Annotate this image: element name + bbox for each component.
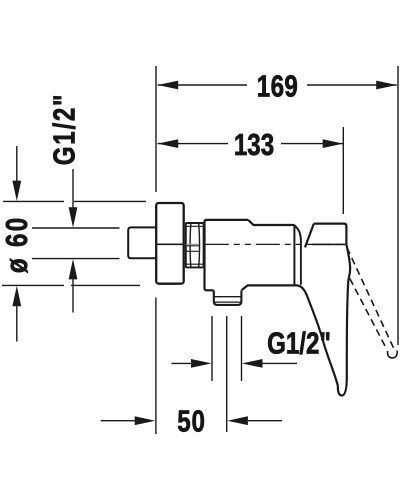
outlet thread lines (214, 297, 242, 302)
handle cap top/right (314, 224, 347, 245)
extension line, right for 169 (397, 66, 399, 345)
dimension line o60 with arrowheads (12, 146, 21, 342)
extension line, wall plane for 50 (155, 298, 157, 435)
valve body bottom right edge (242, 285, 297, 290)
extension line, right for 133 (handle cap) (342, 127, 344, 214)
lever alternate position, dashed outer edge (347, 248, 394, 349)
lever alternate position, dashed inner edge (350, 279, 386, 348)
dimension line 50 with arrowheads (101, 416, 282, 425)
extension line, outlet left edge (211, 316, 213, 381)
nut center seam (grey) (186, 243, 199, 245)
dimension line G1/2 inlet with arrowheads (69, 169, 78, 313)
svg-text:ø 60: ø 60 (0, 215, 33, 273)
lever alternate position tip hook (388, 351, 398, 358)
extension line, left (wall plane) for 169/133 (155, 66, 157, 192)
svg-text:133: 133 (234, 127, 274, 162)
body end seam 1 (293, 226, 295, 285)
extension line, outlet axis for 50 (226, 316, 228, 432)
handle cap bottom seam (312, 243, 346, 245)
extension line, outlet right edge (241, 316, 243, 381)
dimension line G1/2 outlet with arrowheads (172, 359, 298, 368)
escutcheon mid seam (156, 243, 184, 245)
dimension line 169 with arrowheads (158, 81, 397, 90)
valve body top step (248, 220, 295, 227)
witness line, escutcheon bottom edge (2, 284, 140, 286)
witness line, inlet stub bottom edge (32, 258, 120, 260)
horizontal centerline (dash-dot) (205, 243, 345, 245)
escutcheon disc (o60) (156, 203, 184, 284)
witness line, escutcheon top edge (3, 200, 146, 202)
svg-text:G1/2": G1/2" (47, 93, 82, 165)
outlet spout (G1/2 thread) (214, 290, 242, 305)
handle cap left slant (305, 224, 314, 248)
svg-text:169: 169 (257, 69, 298, 104)
valve body outline, left/top/bottom (205, 220, 249, 290)
svg-text:G1/2": G1/2" (267, 326, 331, 361)
inlet wall stub (G1/2 thread) (128, 227, 155, 258)
lever handle inner edge (297, 285, 338, 386)
body end dome curve (296, 227, 301, 240)
body end seam 2 (300, 240, 302, 285)
witness line, inlet stub top edge (32, 227, 120, 229)
lever handle outer edge and tip (338, 244, 350, 395)
svg-text:50: 50 (177, 403, 205, 438)
dimension line 133 with arrowheads (158, 139, 344, 148)
union nut (hex) (186, 223, 204, 267)
